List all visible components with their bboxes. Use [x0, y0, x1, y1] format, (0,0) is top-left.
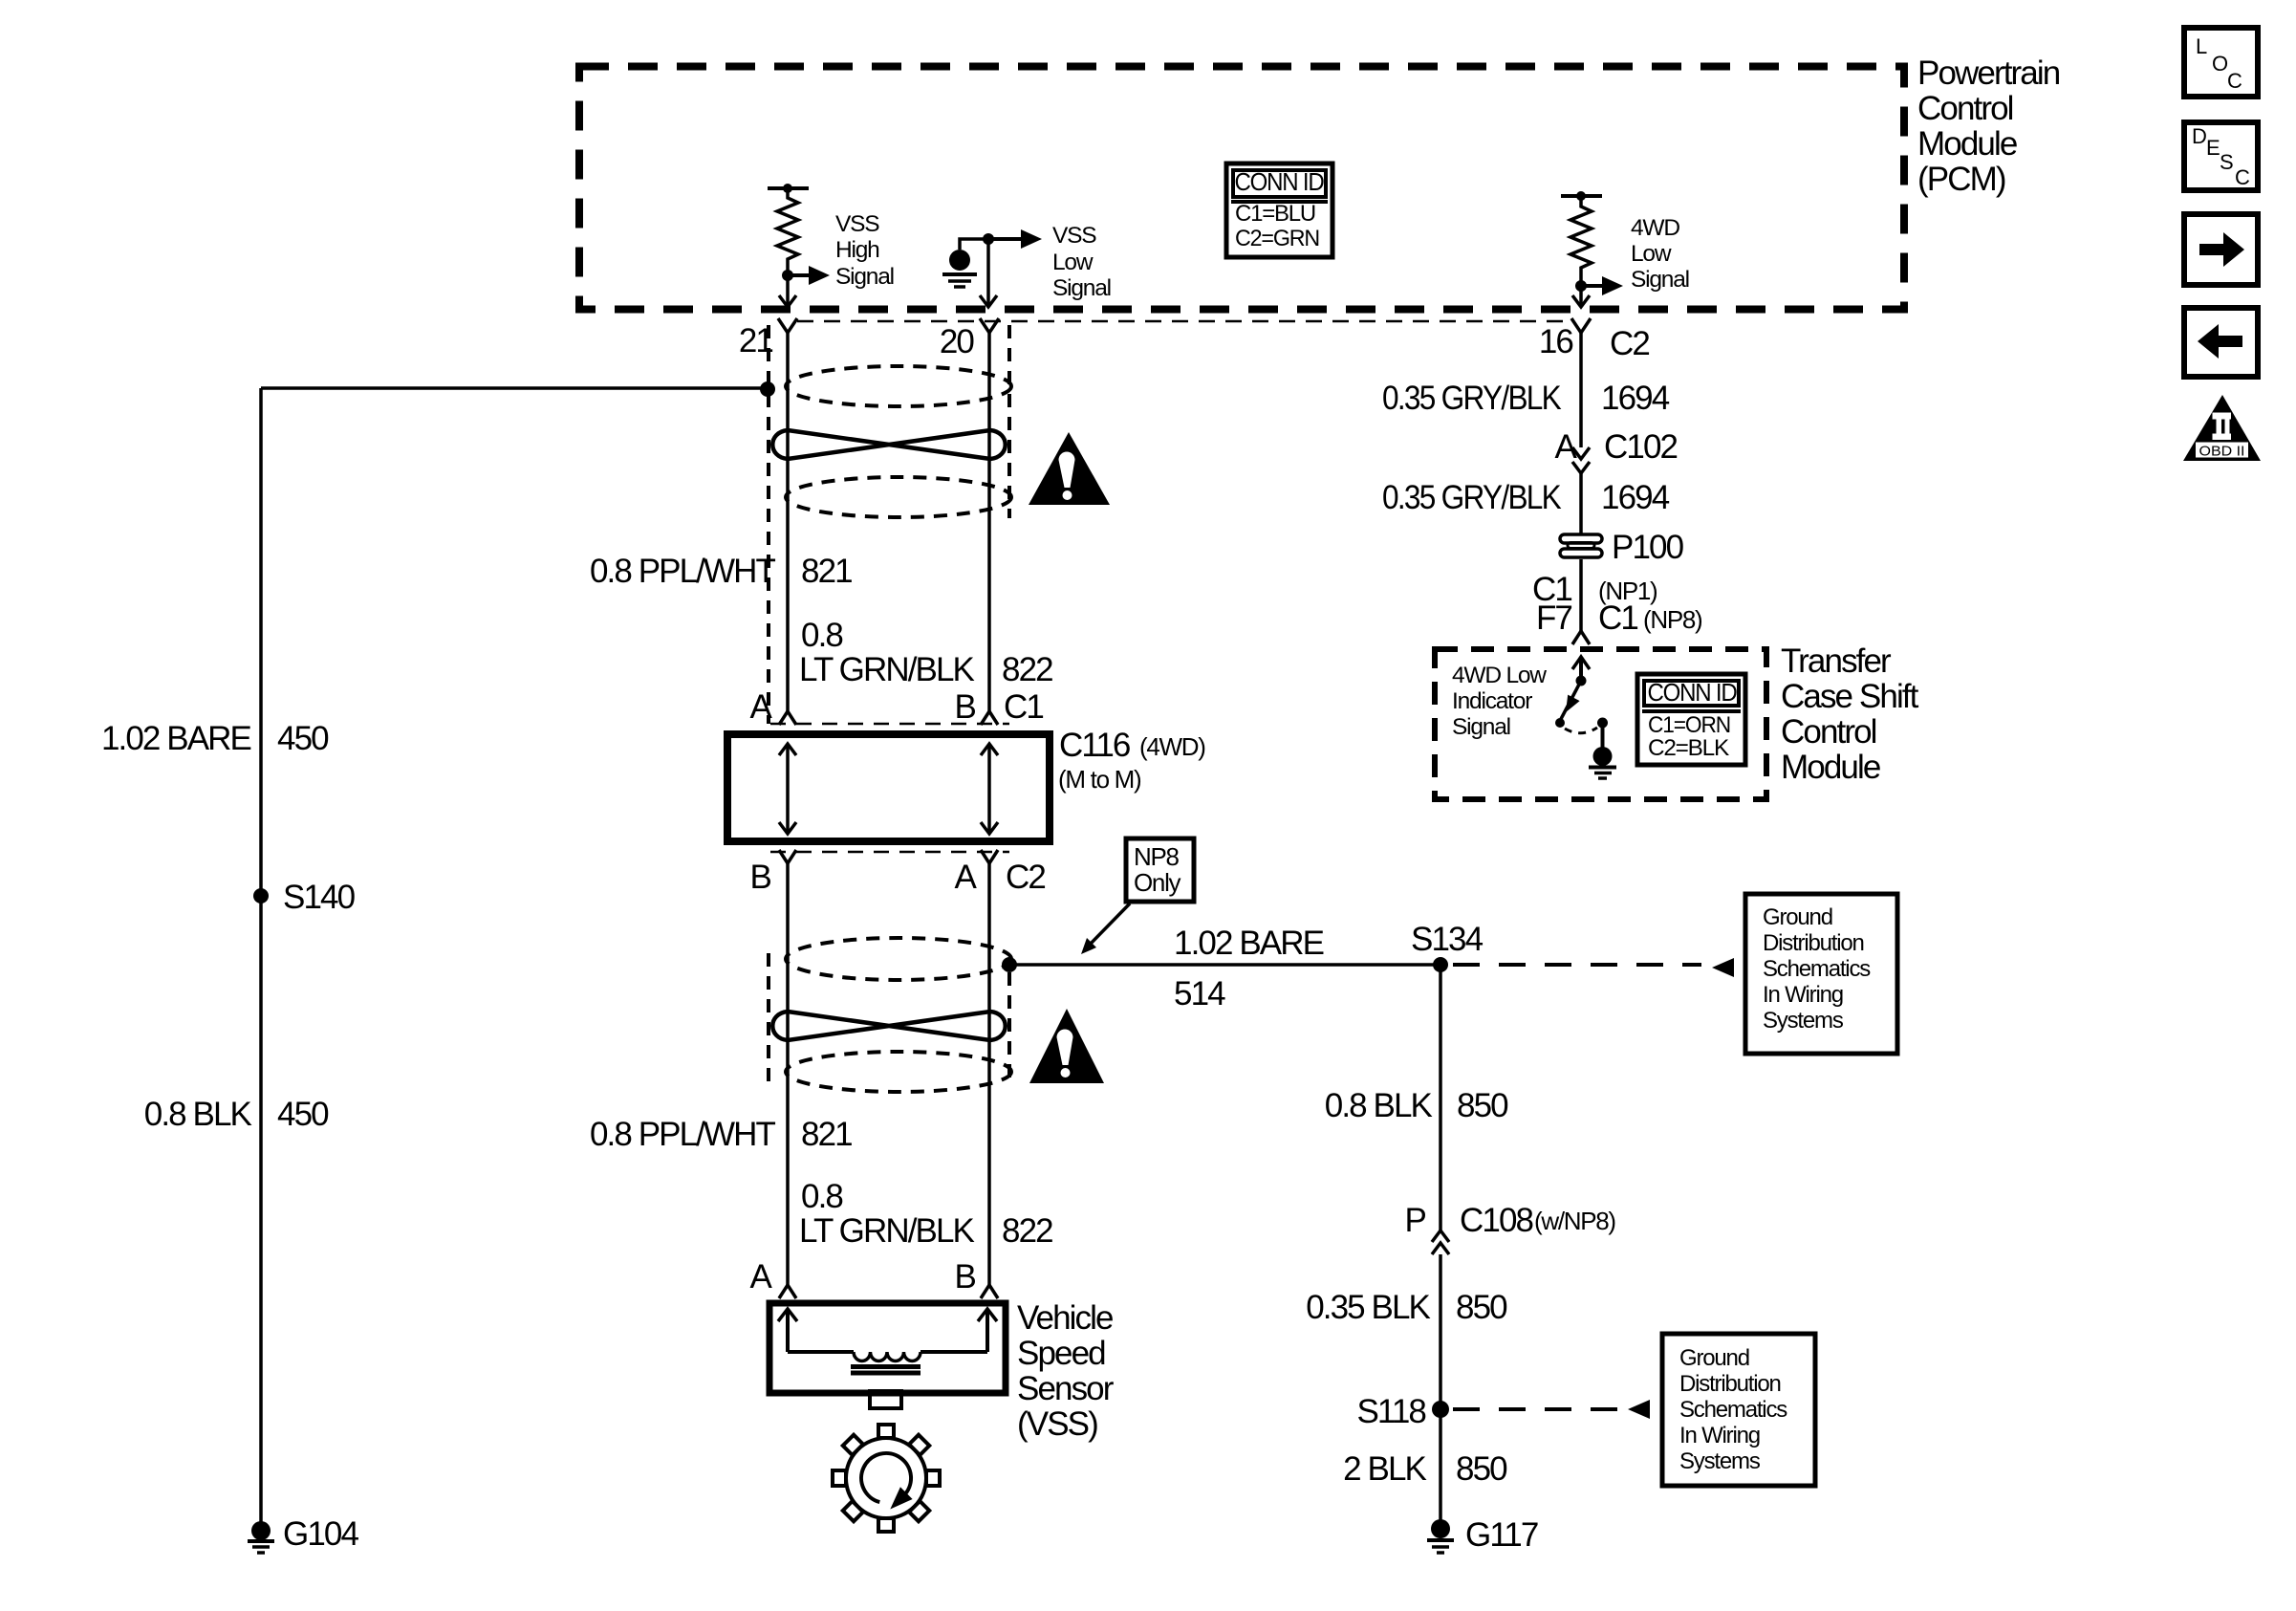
VSS High Signal arrow	[788, 266, 830, 285]
svg-text:Low: Low	[1052, 250, 1094, 275]
transfer case module label	[1781, 642, 1919, 786]
svg-text:Low: Low	[1631, 241, 1672, 267]
pin 20 terminal fork	[980, 318, 999, 333]
svg-text:0.8 PPL/WHT: 0.8 PPL/WHT	[590, 553, 776, 590]
C116 internal pin right	[981, 744, 998, 834]
svg-text:4WD Low: 4WD Low	[1452, 663, 1547, 688]
svg-text:Signal: Signal	[1452, 714, 1510, 740]
shield lower twisted pair dashed sides	[769, 953, 1009, 1086]
svg-text:C1: C1	[1598, 599, 1637, 637]
svg-text:Systems: Systems	[1763, 1008, 1844, 1034]
terminal fork wire822 into C116	[981, 711, 998, 725]
wire label 0.35 GRY/BLK 1694 upper	[1382, 380, 1670, 417]
CONN ID table PCM	[1226, 163, 1332, 257]
svg-text:0.8: 0.8	[801, 617, 842, 654]
svg-text:B: B	[750, 859, 771, 896]
VSS internal pickup coil	[778, 1309, 997, 1373]
svg-text:(4WD): (4WD)	[1139, 732, 1205, 761]
svg-text:S134: S134	[1411, 921, 1484, 958]
PCM connector face dashed line	[797, 320, 1570, 323]
svg-text:Control: Control	[1781, 713, 1876, 751]
splice S134	[1433, 957, 1448, 972]
svg-text:G104: G104	[283, 1515, 358, 1553]
wire 2 BLK 850 segment	[1439, 1409, 1442, 1521]
pin 21 terminal fork	[778, 318, 797, 333]
svg-text:S140: S140	[283, 879, 356, 916]
svg-text:Indicator: Indicator	[1452, 688, 1532, 714]
svg-text:S118: S118	[1356, 1393, 1425, 1430]
dashed reference line to ground distribution 2	[1453, 1400, 1650, 1419]
wire label 1.02 BARE 450	[101, 720, 329, 757]
svg-text:0.8 PPL/WHT: 0.8 PPL/WHT	[590, 1116, 776, 1153]
wire label 0.8 BLK 450	[144, 1096, 329, 1133]
terminal fork wire822 below C116	[981, 850, 998, 863]
svg-text:(NP8): (NP8)	[1643, 605, 1702, 634]
svg-text:0.8 BLK: 0.8 BLK	[1325, 1087, 1433, 1124]
connector C116 bottom cavity labels B A C2	[750, 859, 1046, 896]
C116 C2 connector face dashed line	[770, 851, 1009, 854]
wire label 0.8 LT GRN/BLK 822 upper	[799, 617, 1052, 688]
svg-text:(w/NP8): (w/NP8)	[1534, 1207, 1615, 1235]
svg-text:20: 20	[940, 323, 975, 360]
svg-text:822: 822	[1002, 651, 1052, 688]
svg-text:D: D	[2192, 124, 2207, 148]
ground distribution schematics box 2	[1662, 1334, 1815, 1486]
resistor R2 4WD low pull-up	[1561, 191, 1602, 286]
switch blade with arrow	[1561, 681, 1581, 719]
VSS connector cavity labels A B	[750, 1258, 976, 1295]
svg-text:Ground: Ground	[1763, 904, 1832, 930]
svg-text:822: 822	[1002, 1212, 1052, 1250]
wire label 2 BLK 850	[1343, 1450, 1507, 1488]
svg-text:VSS: VSS	[1052, 223, 1096, 249]
svg-text:C: C	[2227, 69, 2242, 93]
wire pin 21 inside PCM with male pin arrow	[779, 275, 796, 307]
wire 1694 upper segment pin16 to C102	[1579, 333, 1583, 447]
node junction VSS low	[983, 233, 994, 245]
drain wire 450 horizontal run	[261, 386, 765, 390]
wire label 0.8 BLK 850	[1325, 1087, 1508, 1124]
svg-text:Module: Module	[1781, 749, 1880, 786]
svg-text:P: P	[1405, 1202, 1426, 1239]
svg-text:VSS: VSS	[835, 211, 879, 237]
VSS Low Signal arrow	[988, 229, 1042, 249]
svg-text:1694: 1694	[1601, 479, 1670, 516]
drain wire 514 horizontal run	[1009, 963, 1440, 967]
NP8 callout arrow	[1081, 903, 1130, 954]
svg-text:C102: C102	[1604, 428, 1678, 466]
svg-text:821: 821	[801, 553, 852, 590]
connector F7 C1 NP8 labels	[1536, 599, 1702, 637]
terminal fork wire821 into VSS	[779, 1285, 796, 1298]
icon forward arrow box	[2184, 214, 2258, 285]
node junction on R2	[1575, 280, 1587, 292]
terminal fork wire822 into VSS	[981, 1285, 998, 1298]
svg-text:E: E	[2206, 136, 2220, 160]
connector C102 inline	[1572, 447, 1590, 473]
4WD Low Signal arrow	[1581, 276, 1623, 295]
wire label 0.35 GRY/BLK 1694 lower	[1382, 479, 1670, 516]
svg-text:P100: P100	[1612, 529, 1684, 566]
svg-text:B: B	[955, 688, 976, 726]
terminal fork into transfer case	[1572, 631, 1590, 644]
shield upper top dashed ellipse	[786, 366, 1011, 406]
svg-text:O: O	[2212, 52, 2228, 76]
svg-text:Powertrain: Powertrain	[1917, 54, 2060, 92]
svg-text:Signal: Signal	[835, 264, 894, 290]
svg-text:CONN ID: CONN ID	[1648, 678, 1737, 707]
svg-text:C1=ORN: C1=ORN	[1648, 712, 1730, 738]
4WD low indicator signal label	[1452, 663, 1547, 740]
svg-text:Transfer: Transfer	[1781, 642, 1892, 680]
icon DESC box	[2184, 122, 2258, 190]
svg-text:Signal: Signal	[1631, 267, 1689, 293]
PCM powertrain control module dashed box	[579, 67, 1904, 310]
svg-text:Speed: Speed	[1017, 1335, 1105, 1372]
svg-text:Vehicle: Vehicle	[1017, 1299, 1113, 1337]
splice S118	[1432, 1401, 1449, 1418]
svg-text:450: 450	[277, 720, 329, 757]
svg-text:C116: C116	[1059, 727, 1130, 764]
svg-text:S: S	[2220, 150, 2234, 174]
svg-text:In Wiring: In Wiring	[1763, 982, 1843, 1008]
dashed reference line to ground distribution 1	[1453, 958, 1734, 977]
NP8 Only callout box	[1126, 838, 1194, 902]
svg-text:821: 821	[801, 1116, 852, 1153]
switch ground stem	[1601, 723, 1605, 748]
svg-text:0.35 GRY/BLK: 0.35 GRY/BLK	[1382, 479, 1561, 516]
PCM label	[1917, 54, 2060, 198]
reluctor wheel	[833, 1425, 940, 1532]
connector C1 NP1 labels	[1532, 571, 1657, 608]
terminal fork wire821 below C116	[779, 850, 796, 863]
node shield tap dot	[760, 381, 775, 397]
svg-text:2 BLK: 2 BLK	[1343, 1450, 1426, 1488]
svg-text:NP8: NP8	[1134, 842, 1180, 871]
wire segment P100 to transfer case	[1579, 559, 1583, 631]
svg-text:0.35 BLK: 0.35 BLK	[1306, 1289, 1430, 1326]
svg-text:Schematics: Schematics	[1679, 1397, 1787, 1423]
wire label 0.35 BLK 850	[1306, 1289, 1507, 1326]
connector C116 label	[1058, 727, 1205, 794]
drain wire 450 vertical run upper	[259, 388, 263, 896]
CONN ID table transfer case	[1637, 674, 1745, 765]
svg-text:850: 850	[1456, 1289, 1507, 1326]
icon OBD II triangle	[2183, 395, 2261, 461]
svg-text:Case Shift: Case Shift	[1781, 678, 1919, 715]
twisted pair bowtie lower	[772, 1012, 1006, 1040]
svg-text:0.8 BLK: 0.8 BLK	[144, 1096, 252, 1133]
warning triangle 2	[1029, 1009, 1104, 1083]
svg-text:514: 514	[1174, 975, 1225, 1012]
wire 0.35 BLK 850 segment	[1439, 1254, 1442, 1409]
svg-text:450: 450	[277, 1096, 329, 1133]
pin 16 terminal fork	[1571, 318, 1591, 333]
wire 0.8 BLK 850 segment	[1439, 965, 1442, 1231]
resistor R1 VSS high pull-up	[768, 184, 809, 275]
svg-text:A: A	[955, 859, 978, 896]
svg-text:F7: F7	[1536, 599, 1571, 637]
connector C108 labels	[1405, 1202, 1616, 1239]
ground distribution schematics box 1	[1745, 894, 1897, 1054]
switch travel dashed arc	[1565, 728, 1597, 733]
svg-text:0.8: 0.8	[801, 1178, 842, 1215]
transfer case internal ground	[1589, 747, 1616, 778]
node shield tap dot lower	[1002, 957, 1017, 972]
C116 internal pin left	[779, 744, 796, 834]
node junction on R1	[782, 270, 793, 281]
4WD Low Signal label	[1631, 215, 1689, 293]
svg-text:Only: Only	[1134, 868, 1181, 897]
warning triangle 1	[1029, 432, 1110, 505]
svg-text:Module: Module	[1917, 125, 2017, 163]
shield upper twisted pair dashed sides	[769, 325, 1009, 724]
svg-text:0.35 GRY/BLK: 0.35 GRY/BLK	[1382, 380, 1561, 417]
svg-text:C2: C2	[1610, 325, 1649, 362]
VSS mounting tab	[870, 1391, 901, 1408]
svg-text:Distribution: Distribution	[1679, 1371, 1781, 1397]
connector C116 top cavity labels A B C1	[750, 688, 1044, 726]
svg-text:G117: G117	[1465, 1516, 1538, 1554]
svg-text:(PCM): (PCM)	[1917, 161, 2005, 198]
svg-text:Schematics: Schematics	[1763, 956, 1871, 982]
VSS Low Signal label	[1052, 223, 1111, 301]
svg-text:High: High	[835, 237, 879, 263]
twisted pair bowtie upper	[772, 430, 1006, 459]
svg-text:C1=BLU: C1=BLU	[1235, 201, 1315, 227]
svg-text:(VSS): (VSS)	[1017, 1405, 1097, 1443]
svg-text:Signal: Signal	[1052, 275, 1111, 301]
wire label 0.8 PPL/WHT 821 upper	[590, 553, 852, 590]
switch input pin arrow	[1572, 657, 1590, 681]
svg-text:1.02 BARE: 1.02 BARE	[101, 720, 251, 757]
svg-text:1.02 BARE: 1.02 BARE	[1174, 925, 1324, 962]
wire 821 upper segment pin21 to C116	[786, 333, 790, 711]
svg-text:OBD II: OBD II	[2199, 444, 2245, 460]
shield upper bottom dashed ellipse	[786, 477, 1011, 517]
VSS label	[1017, 1299, 1115, 1443]
pass-through grommet P100	[1560, 534, 1602, 557]
wire label 1.02 BARE 514	[1174, 925, 1324, 1012]
svg-text:C2=GRN: C2=GRN	[1235, 226, 1319, 251]
svg-text:1694: 1694	[1601, 380, 1670, 417]
svg-text:LT GRN/BLK: LT GRN/BLK	[799, 651, 975, 688]
svg-text:C108: C108	[1460, 1202, 1533, 1239]
svg-text:L: L	[2196, 34, 2207, 58]
wire 821 lower segment C116 to VSS	[786, 863, 790, 1285]
svg-text:(M to M): (M to M)	[1058, 765, 1141, 794]
svg-text:LT GRN/BLK: LT GRN/BLK	[799, 1212, 975, 1250]
shield lower bottom dashed ellipse	[786, 1052, 1011, 1092]
wire 822 lower segment C116 to VSS	[987, 863, 991, 1285]
VSS High Signal label	[835, 211, 894, 290]
wire pin 16 inside PCM with male pin arrow	[1572, 286, 1590, 307]
svg-text:B: B	[955, 1258, 976, 1295]
svg-text:C: C	[2235, 165, 2250, 189]
svg-text:16: 16	[1539, 323, 1573, 360]
svg-text:Distribution: Distribution	[1763, 930, 1864, 956]
svg-text:A: A	[750, 1258, 773, 1295]
terminal fork wire821 into C116	[779, 711, 796, 725]
wire 0.8 BLK 450 lower run	[259, 896, 263, 1523]
svg-text:Sensor: Sensor	[1017, 1370, 1115, 1407]
wire 822 upper segment pin20 to C116	[987, 333, 991, 711]
svg-text:850: 850	[1456, 1450, 1507, 1488]
connector C102 labels	[1555, 428, 1678, 466]
switch pivot node	[1576, 676, 1587, 686]
svg-text:C2=BLK: C2=BLK	[1648, 735, 1729, 761]
shield lower top dashed ellipse	[786, 938, 1011, 980]
svg-text:C2: C2	[1006, 859, 1045, 896]
svg-text:Systems: Systems	[1679, 1448, 1761, 1474]
switch contact left	[1555, 718, 1565, 728]
PCM internal ground for VSS low	[942, 239, 988, 287]
wire label 0.8 PPL/WHT 821 lower	[590, 1116, 852, 1153]
connector C116 box	[727, 734, 1050, 841]
splice S140	[253, 888, 269, 903]
svg-text:Control: Control	[1917, 90, 2013, 127]
svg-text:4WD: 4WD	[1631, 215, 1679, 241]
connector C108 inline	[1432, 1230, 1449, 1254]
transfer case shift control module dashed box	[1435, 649, 1766, 799]
svg-text:850: 850	[1457, 1087, 1508, 1124]
svg-text:A: A	[750, 688, 773, 726]
icon back arrow box	[2184, 308, 2258, 377]
ground G117	[1427, 1519, 1454, 1553]
switch contact right	[1597, 718, 1608, 729]
wire 1694 lower segment C102 to P100	[1579, 473, 1583, 534]
svg-text:CONN ID: CONN ID	[1235, 167, 1324, 196]
wire pin 20 inside PCM with male pin arrow	[980, 239, 997, 307]
svg-text:In Wiring: In Wiring	[1679, 1423, 1760, 1448]
vehicle speed sensor VSS box	[769, 1303, 1006, 1393]
icon LOC box	[2184, 28, 2258, 97]
svg-text:A: A	[1555, 428, 1578, 466]
ground G104	[248, 1521, 274, 1553]
svg-text:Ground: Ground	[1679, 1345, 1749, 1371]
wire label 0.8 LT GRN/BLK 822 lower	[799, 1178, 1052, 1250]
svg-text:C1: C1	[1004, 688, 1043, 726]
C116 C1 connector face dashed line	[770, 723, 1009, 726]
